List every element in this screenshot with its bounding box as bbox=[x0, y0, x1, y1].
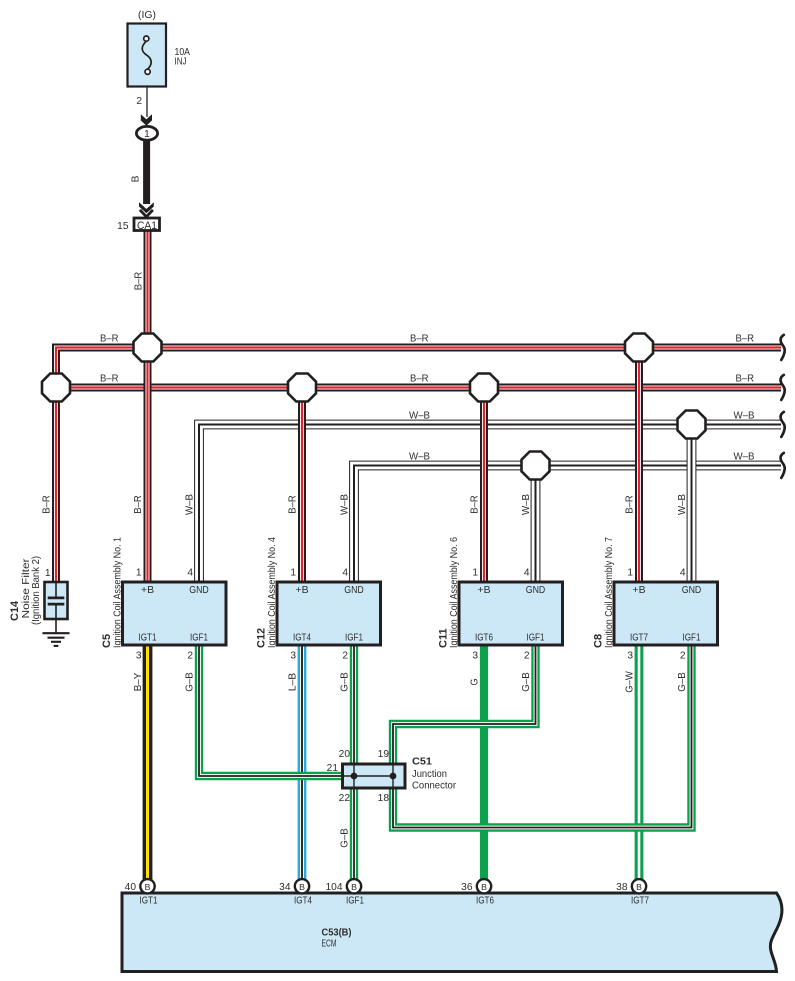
wire W-B drop to C8 GND bbox=[687, 425, 697, 585]
svg-text:W–B: W–B bbox=[734, 411, 755, 422]
C51 internal bus lines bbox=[344, 766, 393, 787]
svg-text:IGF1: IGF1 bbox=[345, 633, 363, 644]
fuse element symbol bbox=[142, 36, 151, 74]
svg-text:IGF1: IGF1 bbox=[683, 633, 701, 644]
svg-text:B–R: B–R bbox=[100, 334, 119, 345]
wire B-R feed from CA1 to C5 +B bbox=[144, 231, 152, 584]
svg-text:2: 2 bbox=[342, 651, 348, 662]
wire B-Y wire C5 IGT1 to ECM bbox=[143, 643, 153, 880]
svg-text:B–Y: B–Y bbox=[133, 673, 144, 692]
junction octagon B-R bus corner / C14 drop bbox=[42, 374, 70, 402]
svg-text:GND: GND bbox=[682, 585, 702, 596]
svg-text:B–R: B–R bbox=[470, 495, 481, 514]
connector CA1 box bbox=[134, 218, 160, 231]
svg-text:B–R: B–R bbox=[133, 272, 144, 291]
svg-text:B: B bbox=[636, 882, 642, 892]
wire B feed from splice to CA1 bbox=[143, 140, 150, 204]
svg-text:W–B: W–B bbox=[521, 494, 532, 515]
svg-text:Junction: Junction bbox=[412, 768, 447, 780]
svg-text:C5: C5 bbox=[101, 634, 113, 648]
svg-text:B–R: B–R bbox=[133, 495, 144, 514]
svg-text:C11: C11 bbox=[438, 628, 450, 648]
wire B-R bus upper with left corner bbox=[56, 348, 781, 388]
svg-text:B: B bbox=[351, 882, 357, 892]
double chevron arrow into CA1 bbox=[139, 202, 154, 213]
svg-text:IGT1: IGT1 bbox=[140, 896, 158, 907]
svg-text:19: 19 bbox=[378, 749, 390, 760]
wire G wire C11 IGT6 to ECM bbox=[480, 643, 488, 880]
svg-text:IGT4: IGT4 bbox=[293, 633, 311, 644]
ignition coil C5 box bbox=[123, 582, 227, 645]
svg-text:Ignition Coil Assembly No. 7: Ignition Coil Assembly No. 7 bbox=[604, 537, 615, 648]
svg-text:W–B: W–B bbox=[734, 452, 755, 463]
wire G-B wire C8 IGF1 to C51 pin 18 bbox=[393, 643, 692, 828]
svg-text:B–R: B–R bbox=[410, 374, 429, 385]
svg-text:W–B: W–B bbox=[340, 494, 351, 515]
wire B-R bus lower bbox=[56, 384, 781, 392]
wire G-W wire C8 IGT7 to ECM bbox=[635, 643, 644, 880]
wire G-B wire C5 IGF1 to C51 pin 21 bbox=[199, 643, 342, 776]
ECM C53(B) box bbox=[122, 893, 782, 972]
wire L-B wire C12 IGT4 to ECM bbox=[298, 643, 307, 880]
wire B-R drop to noise filter C14 bbox=[52, 388, 60, 585]
svg-text:IGF1: IGF1 bbox=[190, 633, 208, 644]
wire fuse pin 2 lead bbox=[146, 87, 148, 117]
ECM pin 34 connector ring B bbox=[295, 879, 309, 893]
fuse 10A INJ box bbox=[128, 24, 167, 87]
svg-text:2: 2 bbox=[680, 651, 686, 662]
svg-text:B–R: B–R bbox=[736, 374, 755, 385]
svg-text:IGT4: IGT4 bbox=[294, 896, 312, 907]
svg-text:GND: GND bbox=[526, 585, 546, 596]
svg-text:+B: +B bbox=[141, 585, 154, 596]
svg-text:21: 21 bbox=[327, 763, 339, 774]
splice ellipse 1 bbox=[136, 126, 157, 140]
svg-text:B: B bbox=[481, 882, 487, 892]
svg-text:3: 3 bbox=[290, 651, 296, 662]
svg-text:GND: GND bbox=[344, 585, 364, 596]
continuation mark W-B bus upper bbox=[781, 412, 785, 437]
svg-text:1: 1 bbox=[45, 568, 51, 579]
svg-text:B: B bbox=[131, 175, 142, 182]
ignition coil C11 box bbox=[459, 582, 563, 645]
svg-text:38: 38 bbox=[616, 882, 628, 893]
svg-text:4: 4 bbox=[187, 568, 193, 579]
svg-text:IGF1: IGF1 bbox=[346, 896, 364, 907]
ground symbol bbox=[43, 633, 70, 646]
ignition coil C12 box bbox=[277, 582, 381, 645]
svg-text:(Ignition Bank 2): (Ignition Bank 2) bbox=[31, 556, 42, 625]
svg-text:2: 2 bbox=[187, 651, 193, 662]
svg-text:1: 1 bbox=[627, 568, 633, 579]
svg-text:34: 34 bbox=[279, 882, 291, 893]
svg-text:GND: GND bbox=[189, 585, 209, 596]
svg-text:G: G bbox=[470, 678, 481, 685]
svg-text:Ignition Coil Assembly No. 1: Ignition Coil Assembly No. 1 bbox=[113, 537, 124, 648]
continuation mark W-B bus lower bbox=[781, 453, 785, 478]
svg-text:2: 2 bbox=[136, 96, 142, 107]
wire G-B wire C11 IGF1 to C51 pin 19 bbox=[393, 643, 536, 763]
svg-text:1: 1 bbox=[472, 568, 478, 579]
svg-text:1: 1 bbox=[290, 568, 296, 579]
svg-text:Ignition Coil Assembly No. 6: Ignition Coil Assembly No. 6 bbox=[449, 537, 460, 648]
svg-text:Connector: Connector bbox=[412, 780, 456, 792]
svg-text:C14: C14 bbox=[9, 600, 21, 621]
svg-text:B–R: B–R bbox=[625, 495, 636, 514]
capacitor symbol inside C14 bbox=[48, 583, 65, 633]
svg-text:2: 2 bbox=[524, 651, 530, 662]
ECM pin 36 connector ring B bbox=[477, 879, 491, 893]
continuation mark B-R bus lower bbox=[781, 375, 785, 400]
svg-text:B–R: B–R bbox=[410, 334, 429, 345]
junction octagon B-R bus lower / C12 feed bbox=[288, 374, 316, 402]
svg-text:40: 40 bbox=[125, 882, 137, 893]
svg-text:B–R: B–R bbox=[736, 334, 755, 345]
svg-text:IGT1: IGT1 bbox=[139, 633, 157, 644]
svg-text:20: 20 bbox=[339, 749, 351, 760]
svg-text:CA1: CA1 bbox=[137, 220, 157, 232]
svg-text:B–R: B–R bbox=[288, 495, 299, 514]
svg-text:G–B: G–B bbox=[521, 672, 532, 692]
wire B-R drop to C8 +B bbox=[635, 348, 643, 585]
svg-text:22: 22 bbox=[339, 793, 351, 804]
svg-text:4: 4 bbox=[680, 568, 686, 579]
svg-text:4: 4 bbox=[342, 568, 348, 579]
svg-text:B–R: B–R bbox=[42, 495, 53, 514]
svg-text:W–B: W–B bbox=[185, 494, 196, 515]
wire G-B wire C12 IGF1 through C51 to ECM bbox=[350, 643, 358, 880]
svg-text:B: B bbox=[145, 882, 151, 892]
svg-text:3: 3 bbox=[472, 651, 478, 662]
svg-text:IGT6: IGT6 bbox=[476, 896, 494, 907]
svg-text:INJ: INJ bbox=[175, 57, 187, 68]
junction octagon B-R bus lower / C11 feed bbox=[470, 374, 498, 402]
svg-text:+B: +B bbox=[478, 585, 491, 596]
svg-text:W–B: W–B bbox=[409, 452, 430, 463]
svg-text:B: B bbox=[299, 882, 305, 892]
svg-text:W–B: W–B bbox=[677, 494, 688, 515]
ECM pin 38 connector ring B bbox=[632, 879, 646, 893]
svg-text:3: 3 bbox=[627, 651, 633, 662]
svg-text:G–B: G–B bbox=[185, 672, 196, 692]
wire W-B bus lower with corner to C12 GND bbox=[354, 466, 781, 585]
svg-text:G–W: G–W bbox=[625, 671, 636, 693]
svg-text:C8: C8 bbox=[593, 634, 605, 648]
svg-text:3: 3 bbox=[136, 651, 142, 662]
svg-text:36: 36 bbox=[461, 882, 473, 893]
wire B-R drop to C11 +B bbox=[480, 388, 488, 585]
svg-text:+B: +B bbox=[633, 585, 646, 596]
svg-text:IGT7: IGT7 bbox=[631, 896, 649, 907]
svg-text:B–R: B–R bbox=[100, 374, 119, 385]
junction octagon W-B bus upper / C8 GND bbox=[678, 411, 706, 439]
svg-text:1: 1 bbox=[136, 568, 142, 579]
junction octagon W-B bus lower / C11 GND bbox=[522, 452, 550, 480]
svg-text:4: 4 bbox=[524, 568, 530, 579]
svg-text:G–B: G–B bbox=[340, 672, 351, 692]
svg-text:G–B: G–B bbox=[340, 828, 351, 848]
junction connector C51 box bbox=[343, 764, 406, 788]
svg-text:ECM: ECM bbox=[322, 938, 337, 950]
junction octagon B-R bus upper / C8 feed bbox=[625, 334, 653, 362]
svg-text:IGF1: IGF1 bbox=[527, 633, 545, 644]
svg-text:Ignition Coil Assembly No. 4: Ignition Coil Assembly No. 4 bbox=[267, 537, 278, 648]
svg-text:+B: +B bbox=[296, 585, 309, 596]
noise filter C14 box bbox=[45, 582, 68, 619]
junction octagon B-R bus upper / C5 feed bbox=[134, 334, 162, 362]
svg-text:C12: C12 bbox=[256, 628, 268, 648]
ECM pin 104 connector ring B bbox=[347, 879, 361, 893]
svg-text:G–B: G–B bbox=[677, 672, 688, 692]
svg-text:W–B: W–B bbox=[409, 411, 430, 422]
svg-text:(IG): (IG) bbox=[138, 9, 156, 21]
svg-text:L–B: L–B bbox=[288, 673, 299, 692]
svg-text:C51: C51 bbox=[412, 756, 432, 768]
svg-text:15: 15 bbox=[117, 221, 129, 232]
svg-text:IGT7: IGT7 bbox=[630, 633, 648, 644]
svg-text:IGT6: IGT6 bbox=[475, 633, 493, 644]
C51 internal junction dots bbox=[351, 773, 358, 780]
svg-text:104: 104 bbox=[326, 882, 343, 893]
ignition coil C8 box bbox=[614, 582, 718, 645]
wire W-B bus upper with corner to C5 GND bbox=[199, 425, 781, 585]
wire W-B drop to C11 GND bbox=[531, 466, 541, 585]
svg-text:18: 18 bbox=[378, 793, 390, 804]
wire B-R drop to C12 +B bbox=[298, 388, 306, 585]
continuation mark B-R bus upper bbox=[781, 335, 785, 360]
ECM pin 40 connector ring B bbox=[140, 879, 154, 893]
arrowhead into splice 1 bbox=[141, 114, 152, 126]
svg-text:1: 1 bbox=[144, 129, 150, 140]
